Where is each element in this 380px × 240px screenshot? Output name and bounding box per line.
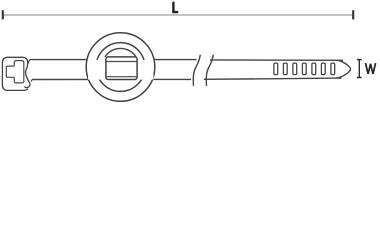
break symbol curve 1 xyxy=(193,55,200,86)
break symbol curve 2 xyxy=(206,55,213,86)
strap bottom end hook xyxy=(31,80,33,82)
label L xyxy=(172,2,178,14)
dimension line L xyxy=(3,14,354,16)
strap top edge (right segment, break to tip) xyxy=(210,59,343,61)
strap band passing over ring (white mask) xyxy=(88,60,154,80)
width marker vertical line xyxy=(358,60,360,78)
tie head inner slot xyxy=(6,61,24,83)
strap bottom edge (right segment) xyxy=(204,78,342,79)
width marker top tick xyxy=(357,59,362,61)
tooth 2 xyxy=(283,63,287,75)
strap left flare top xyxy=(28,60,30,64)
strap bottom edge (left segment) xyxy=(32,78,191,80)
serration teeth xyxy=(274,63,335,75)
round mount outer circle xyxy=(86,33,155,102)
right extension tick xyxy=(352,10,354,19)
tooth 3 xyxy=(293,63,297,75)
tie head outer body fill xyxy=(2,57,27,90)
buckle plate xyxy=(106,57,137,80)
tooth 7 xyxy=(331,63,335,75)
label W xyxy=(366,63,376,74)
tooth 6 xyxy=(321,63,325,75)
tie head outline top+right+curl xyxy=(8,57,30,87)
strap top edge (left segment, head to break) xyxy=(30,59,197,61)
tie head outline bottom+left xyxy=(2,57,27,90)
tooth 5 xyxy=(312,63,316,75)
mount ring inner arc (above strap) xyxy=(105,48,136,57)
left extension tick xyxy=(2,10,4,19)
mount ring outer circle xyxy=(96,43,145,92)
buckle plate lower line xyxy=(106,76,137,78)
buckle plate upper line xyxy=(106,61,137,63)
strap fill (white body of band) xyxy=(30,60,351,80)
width marker bottom tick xyxy=(357,77,362,79)
tooth 1 xyxy=(274,63,278,75)
strap pointed tip xyxy=(337,60,351,78)
tooth 4 xyxy=(302,63,306,75)
